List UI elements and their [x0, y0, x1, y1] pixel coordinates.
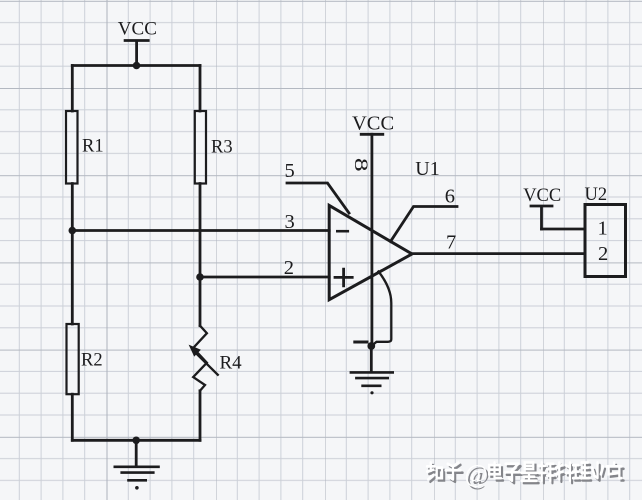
pin 4 label dash — [355, 341, 367, 344]
svg-text:8: 8 — [350, 158, 371, 172]
wire: pin 5 — [287, 183, 349, 213]
wire: pin 2 input — [200, 276, 329, 279]
wire: pin 7 output — [412, 252, 585, 255]
resistor R3 — [195, 111, 206, 184]
svg-text:U1: U1 — [415, 158, 439, 180]
wire: pin 4 curve to ground — [371, 272, 391, 347]
resistor R4 (adjustable) zigzag — [193, 326, 207, 391]
op-amp U1 triangle — [329, 205, 412, 299]
resistor R1 — [66, 111, 78, 184]
svg-text:3: 3 — [285, 211, 295, 233]
svg-text:R2: R2 — [81, 350, 103, 370]
op-amp minus sign — [337, 230, 348, 233]
wire: pin 3 input — [72, 229, 329, 232]
power VCC3 (right) — [531, 206, 552, 229]
svg-text:2: 2 — [284, 257, 294, 279]
svg-text:@: @ — [465, 461, 488, 488]
resistor R2 — [67, 324, 79, 394]
svg-text:6: 6 — [445, 185, 455, 207]
wire: top rail — [72, 64, 200, 67]
svg-text:VCC: VCC — [118, 19, 157, 40]
watermark (zhihu) — [427, 461, 624, 490]
node B: junction R3-R4 / pin2 wire — [196, 273, 204, 281]
node A: junction R1 / pin3 wire — [69, 227, 77, 235]
svg-text:R3: R3 — [211, 137, 233, 157]
node: VCC1 junction — [133, 62, 141, 70]
node: op-amp ground junction — [367, 342, 375, 350]
wire: R2 bottom to bottom rail — [71, 394, 74, 440]
power VCC2 (above op-amp) — [361, 133, 383, 136]
node: ground junction — [132, 437, 140, 445]
svg-text:2: 2 — [598, 243, 608, 265]
power VCC1 (top left) — [125, 41, 148, 66]
resistor R4 arrow — [189, 345, 218, 375]
op-amp plus sign — [335, 269, 352, 286]
wire: R1 bottom to R2 top — [71, 184, 74, 325]
wire: R4 bottom to bottom rail — [199, 391, 202, 441]
svg-text:7: 7 — [446, 231, 456, 253]
ground GND2 (op-amp) — [351, 346, 393, 394]
wire: pin 8 vertical (VCC2 down through op-amp to ground) — [370, 134, 373, 346]
ground GND1 — [115, 440, 159, 489]
wire: VCC3 to U2 pin 1 — [542, 228, 586, 231]
svg-text:5: 5 — [285, 160, 295, 182]
wire: pin 6 — [391, 207, 458, 242]
svg-text:R4: R4 — [220, 352, 243, 373]
wire: VCC rail to R1 top — [71, 66, 74, 112]
svg-text:VCC: VCC — [352, 113, 394, 135]
connector U2 box — [585, 205, 626, 277]
svg-text:1: 1 — [598, 218, 608, 240]
wire: VCC rail to R3 top — [199, 66, 202, 112]
svg-text:VCC: VCC — [523, 186, 561, 206]
wire: R3 bottom down to R4 top — [199, 184, 202, 326]
svg-text:U2: U2 — [585, 185, 608, 205]
svg-text:R1: R1 — [82, 136, 104, 156]
wire: bottom rail — [72, 439, 200, 442]
